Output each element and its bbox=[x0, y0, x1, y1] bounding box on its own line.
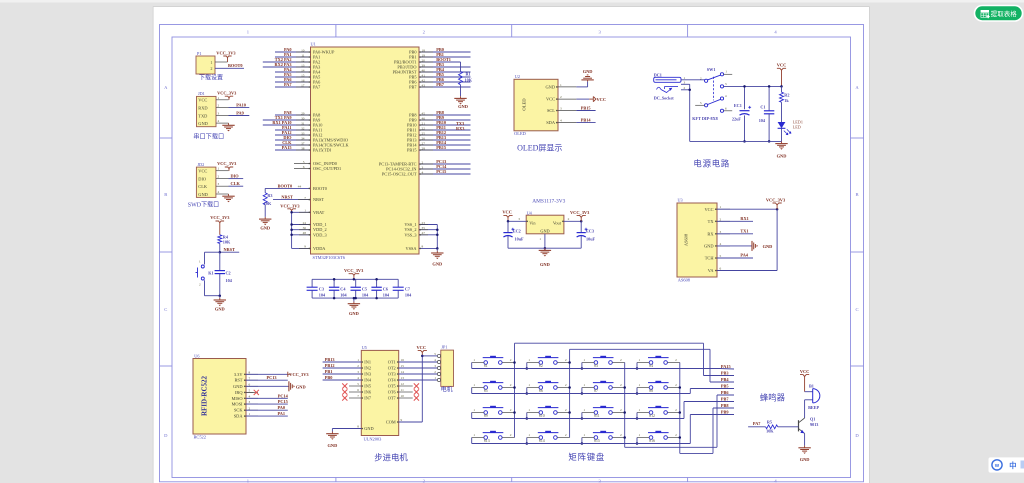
svg-text:C: C bbox=[164, 307, 167, 312]
U1 pin 38 PA15(TDI net PA15 bbox=[275, 145, 332, 152]
svg-text:5: 5 bbox=[357, 382, 359, 386]
svg-text:45: 45 bbox=[422, 111, 426, 115]
U1 pin 36 VDD_2 bbox=[290, 226, 326, 232]
svg-text:VCC: VCC bbox=[502, 210, 512, 215]
pushbutton S1 bbox=[472, 356, 515, 368]
U1 pin 33 PA12 net PA12 bbox=[275, 130, 322, 137]
power VCC_3V3 at AS608 bbox=[766, 197, 786, 209]
keyboard row 3 bus bbox=[472, 438, 639, 445]
pushbutton S9 bbox=[472, 406, 515, 418]
svg-text:GND: GND bbox=[704, 244, 714, 249]
power circuit bottom rail bbox=[690, 140, 782, 142]
svg-text:8: 8 bbox=[422, 245, 424, 249]
svg-text:1: 1 bbox=[725, 70, 727, 74]
svg-text:48: 48 bbox=[303, 231, 307, 235]
U1 pin 17 PA7 net PA7 bbox=[275, 82, 321, 89]
svg-text:13: 13 bbox=[301, 63, 305, 67]
U1 pin 7 NRST bbox=[273, 195, 324, 202]
decoupling bus wires bbox=[312, 278, 398, 298]
svg-text:1: 1 bbox=[583, 433, 585, 437]
svg-text:21: 21 bbox=[422, 121, 426, 125]
power VCC_3V3 to U1 VBAT/VDD rail bbox=[280, 203, 300, 248]
svg-text:PB6: PB6 bbox=[721, 390, 729, 395]
svg-text:SDA: SDA bbox=[546, 120, 556, 125]
U5 pin 13 OT4 bbox=[388, 376, 438, 382]
wire DC1 pin1 to SW1 bbox=[681, 76, 705, 80]
svg-text:1: 1 bbox=[639, 358, 641, 362]
U6 pin 1 SDA bbox=[234, 412, 258, 418]
svg-text:3: 3 bbox=[720, 230, 722, 234]
svg-text:PA9: PA9 bbox=[236, 111, 244, 116]
keyboard net labels PA15 PB3-PB9 bbox=[721, 364, 731, 415]
svg-text:VCC: VCC bbox=[417, 345, 427, 350]
svg-text:R3: R3 bbox=[267, 193, 272, 198]
pushbutton S5 bbox=[472, 381, 515, 393]
svg-text:1: 1 bbox=[560, 83, 562, 87]
wire SW1 pin3 to top rail bbox=[724, 85, 782, 87]
svg-text:EC3: EC3 bbox=[586, 228, 594, 233]
svg-text:S7: S7 bbox=[594, 389, 598, 393]
U1 pin 4 PC15-OSC32_OUT net PC15 bbox=[382, 169, 471, 176]
svg-text:B1: B1 bbox=[809, 384, 814, 389]
svg-text:5: 5 bbox=[700, 101, 702, 105]
svg-text:C1: C1 bbox=[760, 105, 765, 110]
svg-text:TXD: TXD bbox=[198, 113, 207, 118]
svg-text:3: 3 bbox=[560, 107, 562, 111]
U1 pin 13 PA3 net PA3 bbox=[263, 62, 320, 69]
svg-text:电源电路: 电源电路 bbox=[693, 159, 730, 169]
svg-text:GND: GND bbox=[328, 443, 338, 448]
svg-text:3: 3 bbox=[725, 82, 727, 86]
svg-text:1: 1 bbox=[210, 60, 212, 65]
svg-text:7: 7 bbox=[304, 196, 306, 200]
U2 pin 3 SCL bbox=[547, 107, 576, 114]
net PA4 at U3 TCH bbox=[717, 253, 753, 258]
svg-text:GND: GND bbox=[215, 306, 225, 311]
svg-text:C: C bbox=[855, 307, 858, 312]
U5 pin 4 IN4 net PB0 bbox=[323, 375, 372, 383]
rfid module U6 RC522 body bbox=[193, 353, 246, 439]
pushbutton S13 bbox=[472, 431, 515, 443]
pushbutton S11 bbox=[582, 406, 625, 418]
svg-text:SCK: SCK bbox=[234, 408, 243, 413]
U3 pin 3 RX bbox=[707, 230, 730, 237]
svg-text:104: 104 bbox=[226, 278, 233, 283]
svg-text:OSC_OUT/PD1: OSC_OUT/PD1 bbox=[313, 166, 341, 171]
svg-text:VSSA: VSSA bbox=[406, 246, 418, 251]
U1 pin 45 PB8 net PB8 bbox=[409, 110, 470, 117]
resistor R3 10K bbox=[263, 193, 272, 217]
svg-text:43: 43 bbox=[422, 83, 426, 87]
svg-text:1: 1 bbox=[528, 433, 530, 437]
U1 pin 19 PB1 net PB1 bbox=[409, 52, 470, 59]
U1 pin 34 PA13(TMS/SWDIO net DIO bbox=[275, 135, 348, 142]
svg-text:9: 9 bbox=[304, 245, 306, 249]
U6 pin 4 MISO bbox=[232, 394, 258, 400]
svg-text:4: 4 bbox=[560, 119, 562, 123]
keyboard right-side routing wires bbox=[684, 343, 734, 453]
resistor R2 1k bbox=[780, 85, 790, 122]
svg-text:PB0: PB0 bbox=[325, 375, 333, 380]
svg-text:2: 2 bbox=[675, 358, 677, 362]
capacitor C7 104 bbox=[393, 279, 412, 298]
svg-text:1: 1 bbox=[684, 76, 686, 80]
svg-text:PC15: PC15 bbox=[436, 169, 446, 174]
caption OLED ping xianshi bbox=[517, 144, 562, 153]
svg-text:B: B bbox=[164, 192, 167, 197]
ground at JD2 pin4 bbox=[222, 194, 234, 202]
svg-text:1k: 1k bbox=[784, 98, 789, 103]
svg-text:23: 23 bbox=[422, 221, 426, 225]
driver U5 ULN2003 body bbox=[361, 345, 398, 442]
U1 pin 29 PA8 net PA8 bbox=[275, 110, 320, 117]
green extract-table button bbox=[975, 6, 1023, 22]
svg-text:22: 22 bbox=[422, 126, 426, 130]
svg-text:10K: 10K bbox=[223, 239, 231, 244]
svg-text:10: 10 bbox=[301, 48, 305, 52]
svg-text:36: 36 bbox=[303, 226, 307, 230]
U1 VSS pins to ground rail bbox=[404, 221, 438, 251]
svg-text:PB5: PB5 bbox=[721, 383, 729, 388]
svg-text:ULN2003: ULN2003 bbox=[364, 437, 383, 442]
svg-text:S11: S11 bbox=[594, 414, 600, 418]
svg-text:OT6: OT6 bbox=[388, 390, 397, 395]
svg-text:C4: C4 bbox=[340, 287, 346, 292]
svg-text:PA1: PA1 bbox=[277, 411, 285, 416]
svg-text:1: 1 bbox=[639, 433, 641, 437]
U3 pin 5 TCH bbox=[705, 254, 730, 261]
svg-text:MOSI: MOSI bbox=[232, 402, 244, 407]
svg-text:4: 4 bbox=[725, 94, 727, 98]
svg-text:BOOT0: BOOT0 bbox=[228, 63, 243, 68]
led LED1 bbox=[778, 119, 803, 141]
svg-text:VCC_3V3: VCC_3V3 bbox=[210, 215, 230, 220]
capacitor C5 104 bbox=[351, 279, 370, 299]
U5 pin 9 COM bbox=[386, 356, 422, 425]
svg-text:RC522: RC522 bbox=[194, 435, 206, 440]
svg-text:1: 1 bbox=[720, 205, 722, 209]
U2 pin 1 GND bbox=[545, 83, 576, 90]
svg-text:32: 32 bbox=[301, 126, 305, 130]
dc socket DC1 bbox=[654, 73, 681, 101]
svg-text:1: 1 bbox=[218, 96, 220, 100]
svg-text:矩阵键盘: 矩阵键盘 bbox=[568, 452, 605, 462]
svg-text:VA: VA bbox=[708, 268, 715, 273]
U3 pin 2 TX bbox=[708, 217, 730, 224]
svg-text:NRST: NRST bbox=[224, 247, 236, 252]
svg-text:1: 1 bbox=[249, 412, 251, 416]
U1 pin 16 PA6 net PA6 bbox=[275, 77, 321, 84]
svg-text:1: 1 bbox=[528, 408, 530, 412]
svg-text:PB14: PB14 bbox=[581, 118, 592, 123]
svg-text:2: 2 bbox=[510, 433, 512, 437]
ground AMS1117 bbox=[539, 248, 551, 267]
fingerprint module U3 AS608 body bbox=[677, 197, 717, 282]
U1 pin 10 PA0-WKUP net PA0 bbox=[275, 47, 335, 54]
electrolytic capacitor EC1 22uF bbox=[732, 85, 751, 142]
svg-text:6: 6 bbox=[303, 165, 305, 169]
svg-text:VCC: VCC bbox=[800, 369, 810, 374]
svg-text:10: 10 bbox=[401, 394, 405, 398]
svg-text:Q1: Q1 bbox=[810, 416, 815, 421]
svg-text:PB9: PB9 bbox=[721, 409, 729, 414]
svg-text:2: 2 bbox=[510, 358, 512, 362]
svg-text:IN4: IN4 bbox=[364, 378, 372, 383]
svg-text:DIO: DIO bbox=[198, 176, 206, 181]
caption fengmingqi bbox=[760, 393, 786, 403]
net CLK at JD2 pin3 bbox=[229, 181, 244, 186]
svg-text:5: 5 bbox=[720, 254, 722, 258]
svg-text:18: 18 bbox=[422, 48, 426, 52]
U5 pin 16 OT1 bbox=[388, 358, 438, 364]
U1 pin 40 PB4/JNTRST net PB4 bbox=[393, 67, 471, 74]
svg-text:2: 2 bbox=[720, 217, 722, 221]
svg-text:OLED: OLED bbox=[514, 131, 526, 136]
svg-text:6: 6 bbox=[249, 382, 251, 386]
svg-text:27: 27 bbox=[422, 141, 426, 145]
sheet border frame bbox=[160, 25, 864, 483]
svg-text:S6: S6 bbox=[539, 389, 543, 393]
keyboard row 2 bus bbox=[472, 413, 639, 420]
svg-text:C6: C6 bbox=[383, 287, 388, 292]
svg-text:35: 35 bbox=[422, 226, 426, 230]
caption dianyuan dianlu bbox=[693, 159, 730, 169]
pushbutton S12 bbox=[637, 406, 680, 418]
svg-text:PB7: PB7 bbox=[721, 396, 729, 401]
U1 pin 9 VDDA bbox=[292, 245, 327, 251]
power VCC_3V3 flag at U6 3.3V bbox=[246, 372, 309, 378]
pushbutton S14 bbox=[527, 431, 570, 443]
svg-text:S10: S10 bbox=[539, 414, 545, 418]
keyboard row 4 bus bbox=[472, 369, 720, 444]
svg-text:VSS_3: VSS_3 bbox=[404, 232, 416, 237]
svg-text:下载设置: 下载设置 bbox=[199, 74, 223, 82]
svg-text:2: 2 bbox=[218, 175, 220, 179]
U1 pin 22 PB11 net PB11 bbox=[407, 125, 470, 132]
power VCC_3V3 at JD1 bbox=[217, 91, 237, 100]
U1 pin 12 PA2 net PA2 bbox=[263, 57, 320, 64]
svg-text:SW1: SW1 bbox=[707, 67, 716, 72]
svg-text:33: 33 bbox=[301, 131, 305, 135]
svg-text:B: B bbox=[855, 192, 858, 197]
U5 pin 8 GND bbox=[332, 425, 373, 432]
svg-text:IN7: IN7 bbox=[364, 396, 372, 401]
svg-text:16: 16 bbox=[301, 78, 305, 82]
net PB15 at U2 SCL bbox=[576, 105, 595, 110]
svg-text:26: 26 bbox=[422, 136, 426, 140]
svg-text:VCC_3V3: VCC_3V3 bbox=[216, 50, 236, 55]
svg-text:PB15: PB15 bbox=[581, 105, 591, 110]
svg-text:24: 24 bbox=[303, 221, 307, 225]
svg-text:3: 3 bbox=[518, 217, 520, 221]
svg-text:EC1: EC1 bbox=[734, 103, 742, 108]
svg-text:VCC_3V3: VCC_3V3 bbox=[766, 197, 786, 202]
svg-text:S9: S9 bbox=[484, 414, 488, 418]
svg-text:K1: K1 bbox=[208, 270, 213, 275]
no-connect X at U6 IRQ bbox=[246, 390, 259, 395]
svg-text:PA15: PA15 bbox=[282, 145, 292, 150]
U3 pin 6 VA bbox=[708, 267, 730, 274]
svg-text:2: 2 bbox=[249, 406, 251, 410]
U1 pin 42 PB6 net PB6 bbox=[409, 77, 470, 84]
svg-text:GND: GND bbox=[458, 104, 468, 109]
svg-text:U2: U2 bbox=[515, 74, 520, 79]
svg-text:5: 5 bbox=[249, 389, 251, 393]
svg-text:10K: 10K bbox=[766, 429, 774, 434]
pushbutton S8 bbox=[637, 381, 680, 393]
svg-text:OT4: OT4 bbox=[388, 378, 397, 383]
svg-text:RX3: RX3 bbox=[456, 126, 464, 131]
U1 pin 41 PB5 net PB5 bbox=[409, 72, 470, 79]
svg-text:KFT DIP-8X8: KFT DIP-8X8 bbox=[692, 116, 717, 121]
svg-text:4: 4 bbox=[249, 394, 251, 398]
svg-text:22uF: 22uF bbox=[732, 116, 742, 121]
ground power circuit bbox=[775, 141, 787, 158]
U6 pin 7 RST bbox=[234, 376, 258, 382]
svg-text:1: 1 bbox=[473, 383, 475, 387]
svg-text:GND: GND bbox=[364, 426, 373, 431]
ground reset circuit bbox=[214, 296, 226, 312]
svg-text:2: 2 bbox=[218, 104, 220, 108]
svg-text:7: 7 bbox=[249, 376, 251, 380]
svg-text:VCC: VCC bbox=[198, 168, 207, 173]
net TX1 at U3 RX bbox=[717, 229, 753, 234]
svg-text:JP1: JP1 bbox=[441, 344, 447, 349]
U5 pin 2 IN2 net PB12 bbox=[323, 363, 371, 371]
ground at U2 GND bbox=[576, 69, 593, 87]
svg-text:104: 104 bbox=[362, 293, 369, 298]
U6 pin 6 GND bbox=[233, 382, 258, 388]
svg-text:PB12: PB12 bbox=[325, 363, 335, 368]
svg-text:VCC: VCC bbox=[597, 97, 607, 102]
svg-text:IN1: IN1 bbox=[364, 360, 371, 365]
net PB14 at U2 SDA bbox=[576, 118, 595, 123]
caption SWD xiazaikou bbox=[188, 200, 219, 208]
svg-text:Vin: Vin bbox=[529, 220, 536, 225]
svg-text:PB4: PB4 bbox=[721, 377, 729, 382]
svg-text:JD1: JD1 bbox=[198, 91, 205, 96]
svg-text:OLED: OLED bbox=[522, 98, 527, 111]
U5 pin 12 OT5 bbox=[388, 382, 419, 388]
svg-text:2: 2 bbox=[620, 408, 622, 412]
svg-text:1: 1 bbox=[304, 209, 306, 213]
svg-text:R5: R5 bbox=[767, 419, 772, 424]
resistor R1 10K pulldown on BOOT1 bbox=[459, 62, 473, 96]
svg-text:VBAT: VBAT bbox=[313, 210, 325, 215]
svg-text:MISO: MISO bbox=[232, 396, 243, 401]
caption juzhen jianpan bbox=[568, 452, 605, 462]
svg-text:RXD: RXD bbox=[198, 105, 207, 110]
svg-text:C5: C5 bbox=[362, 287, 367, 292]
svg-text:15: 15 bbox=[301, 73, 305, 77]
svg-text:RX: RX bbox=[707, 231, 714, 236]
capacitor C1 104 bbox=[759, 85, 775, 142]
svg-text:4: 4 bbox=[434, 358, 436, 362]
svg-text:PB13: PB13 bbox=[325, 357, 335, 362]
svg-text:GND: GND bbox=[540, 262, 550, 267]
svg-text:11: 11 bbox=[301, 53, 305, 57]
svg-text:RFID-RC522: RFID-RC522 bbox=[201, 375, 209, 416]
svg-text:GND: GND bbox=[540, 228, 549, 233]
svg-text:SDA: SDA bbox=[234, 414, 244, 419]
svg-text:GND: GND bbox=[763, 244, 773, 249]
net DIO at JD2 pin2 bbox=[229, 174, 244, 179]
U5 pin 14 OT3 bbox=[388, 370, 438, 376]
U6 pin 5 IRQ bbox=[235, 389, 258, 395]
ground buzzer bbox=[798, 446, 810, 462]
svg-text:U4: U4 bbox=[527, 210, 533, 215]
svg-text:BOOT0: BOOT0 bbox=[313, 186, 327, 191]
svg-text:IN2: IN2 bbox=[364, 366, 371, 371]
svg-text:CLK: CLK bbox=[231, 181, 241, 186]
electrolytic capacitor EC3 10uF bbox=[577, 221, 596, 248]
svg-text:9013: 9013 bbox=[810, 422, 818, 427]
svg-text:47: 47 bbox=[422, 231, 426, 235]
regulator title AMS1117-3V3 bbox=[532, 199, 565, 205]
svg-text:2: 2 bbox=[510, 408, 512, 412]
U2 pin 4 SDA bbox=[546, 119, 576, 126]
U1 pin 20 PB2/BOOT1 net BOOT1 bbox=[394, 57, 460, 64]
pushbutton S7 bbox=[582, 381, 625, 393]
svg-text:C2: C2 bbox=[226, 270, 231, 275]
svg-text:OT3: OT3 bbox=[388, 372, 396, 377]
svg-text:VCC: VCC bbox=[546, 97, 555, 102]
svg-text:PC15: PC15 bbox=[278, 399, 288, 404]
svg-text:30: 30 bbox=[301, 116, 305, 120]
power VCC_3V3 reset circuit bbox=[210, 215, 230, 235]
svg-text:SWD下载口: SWD下载口 bbox=[188, 200, 219, 208]
svg-text:VCC_3V3: VCC_3V3 bbox=[570, 210, 590, 215]
net PA1 at U6 SDA bbox=[246, 411, 288, 416]
net PA0 at U6 SCK bbox=[246, 405, 288, 410]
svg-text:PB7: PB7 bbox=[409, 85, 417, 90]
svg-text:PA0: PA0 bbox=[277, 405, 285, 410]
power VCC_3V3 at AMS1117 output bbox=[570, 210, 590, 221]
svg-text:DC1: DC1 bbox=[654, 73, 662, 78]
svg-text:PA7: PA7 bbox=[284, 82, 292, 87]
svg-text:DIO: DIO bbox=[231, 174, 240, 179]
svg-text:104: 104 bbox=[319, 293, 326, 298]
svg-text:Vout: Vout bbox=[553, 220, 562, 225]
schematic sheet bbox=[153, 6, 870, 483]
svg-text:2: 2 bbox=[620, 358, 622, 362]
svg-text:AMS1117-3V3: AMS1117-3V3 bbox=[532, 199, 565, 205]
svg-text:GND: GND bbox=[777, 153, 787, 158]
svg-text:GND: GND bbox=[545, 84, 555, 89]
wire U3 VCC to VCC_3V3 bbox=[717, 208, 778, 211]
connector JP1 motor header bbox=[422, 344, 453, 393]
svg-text:2: 2 bbox=[675, 383, 677, 387]
capacitor C3 104 bbox=[307, 279, 326, 298]
svg-text:VCC_3V3: VCC_3V3 bbox=[217, 161, 237, 166]
buzzer B1 BEEP bbox=[805, 384, 820, 419]
power VCC_3V3 at P1 bbox=[216, 50, 236, 62]
svg-text:提取表格: 提取表格 bbox=[991, 9, 1018, 18]
svg-text:2: 2 bbox=[684, 86, 686, 90]
svg-text:2: 2 bbox=[422, 160, 424, 164]
svg-text:NRST: NRST bbox=[313, 197, 324, 202]
svg-text:4: 4 bbox=[422, 170, 424, 174]
svg-text:PB15: PB15 bbox=[407, 148, 417, 153]
pushbutton S3 bbox=[582, 356, 625, 368]
capacitor C6 104 bbox=[371, 278, 390, 299]
svg-text:U1: U1 bbox=[311, 42, 316, 47]
svg-text:4: 4 bbox=[720, 242, 722, 246]
svg-text:6: 6 bbox=[357, 388, 359, 392]
keyboard row 1 bus bbox=[472, 388, 639, 395]
svg-text:10uF: 10uF bbox=[515, 237, 525, 242]
svg-text:COM: COM bbox=[386, 420, 396, 425]
